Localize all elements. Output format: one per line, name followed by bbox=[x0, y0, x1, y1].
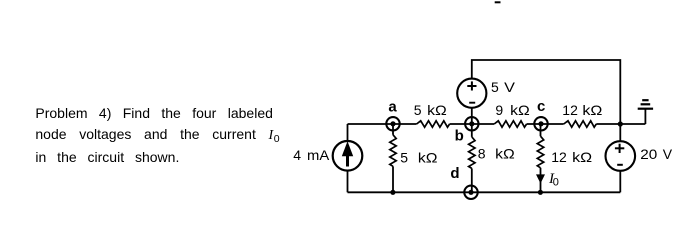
wire: main horizontal, left of 5k bbox=[348, 123, 417, 125]
value label 12 kΩ (vertical resistor) bbox=[551, 149, 592, 165]
wire: top loop from 5V source top, right and down to right rail bbox=[472, 60, 621, 124]
svg-text:kΩ: kΩ bbox=[427, 102, 447, 118]
svg-text:20: 20 bbox=[640, 146, 657, 162]
node d (open circle with junction dot, on bottom rail) bbox=[464, 186, 477, 199]
node label c bbox=[537, 98, 545, 115]
current arrow I0 (downward on 12 kΩ branch) bbox=[536, 174, 545, 183]
junction dot: right rail at main wire bbox=[618, 121, 623, 126]
value label 8 kΩ bbox=[478, 145, 515, 161]
voltage source V2 20 V bbox=[606, 141, 636, 171]
svg-text:4: 4 bbox=[293, 147, 301, 163]
current source I1 4 mA (circle with up arrow) bbox=[333, 141, 363, 171]
svg-text:c: c bbox=[537, 98, 545, 115]
wire: left branch bottom vertical bbox=[347, 170, 349, 192]
svg-text:9: 9 bbox=[495, 102, 503, 118]
junction dot: bottom rail below node c bbox=[538, 190, 543, 195]
node b (open circle with junction dot) bbox=[465, 117, 478, 130]
voltage source V1 5 V bbox=[457, 79, 486, 108]
value label 5 V bbox=[491, 79, 516, 95]
svg-text:a: a bbox=[388, 99, 397, 116]
svg-text:kΩ: kΩ bbox=[418, 149, 438, 165]
node label b bbox=[455, 127, 464, 144]
wire: main horizontal, 12k to ground stub bbox=[596, 123, 645, 125]
svg-text:0: 0 bbox=[553, 177, 559, 189]
svg-text:kΩ: kΩ bbox=[510, 102, 530, 118]
svg-text:mA: mA bbox=[307, 147, 330, 163]
wire: 20V bottom to bottom rail bbox=[619, 171, 621, 193]
svg-text:5: 5 bbox=[491, 79, 499, 95]
wire: left branch top vertical bbox=[347, 124, 349, 141]
value label 9 kΩ bbox=[495, 102, 529, 118]
resistor R4 8 kΩ (vertical, node b to node d) bbox=[469, 124, 475, 192]
svg-text:kΩ: kΩ bbox=[495, 145, 515, 161]
node label d bbox=[450, 165, 459, 182]
node label a bbox=[388, 99, 397, 116]
svg-text:kΩ: kΩ bbox=[572, 149, 592, 165]
svg-text:d: d bbox=[450, 165, 459, 182]
svg-text:8: 8 bbox=[478, 145, 486, 161]
svg-text:12: 12 bbox=[562, 102, 578, 118]
text fragment "-" (cropped line above) bbox=[495, 1, 501, 3]
resistor R3 9 kΩ (horizontal, node b to node c) bbox=[494, 121, 526, 127]
wire: right rail, junction to 20V top bbox=[619, 124, 621, 141]
resistor R1 5 kΩ (vertical, node a to bottom rail) bbox=[390, 124, 396, 192]
value label 20 V bbox=[640, 146, 672, 162]
wire: main horizontal, between 9k and 12k bbox=[527, 123, 564, 125]
resistor R5 12 kΩ (horizontal, node c to right rail) bbox=[564, 121, 597, 127]
value label 4 mA bbox=[293, 147, 330, 163]
svg-text:5: 5 bbox=[400, 149, 408, 165]
svg-text:kΩ: kΩ bbox=[582, 102, 602, 118]
wire: main horizontal, between 5k and 9k bbox=[450, 123, 495, 125]
node c (open circle with junction dot) bbox=[534, 117, 547, 130]
wire: 5V source bottom to node b bbox=[471, 108, 473, 124]
value label 12 kΩ (horizontal resistor) bbox=[562, 102, 602, 118]
ground (top right, pointing up) bbox=[638, 100, 653, 124]
value label 5 kΩ (horizontal resistor) bbox=[414, 102, 447, 118]
svg-text:V: V bbox=[663, 146, 673, 162]
wire: bottom rail bbox=[348, 191, 621, 193]
svg-text:5: 5 bbox=[414, 102, 422, 118]
svg-text:b: b bbox=[455, 127, 464, 144]
resistor R6 12 kΩ (vertical, node c to bottom rail) bbox=[537, 124, 543, 192]
value label 5 kΩ (vertical resistor) bbox=[400, 149, 437, 165]
label I0 bbox=[548, 171, 559, 189]
svg-text:12: 12 bbox=[551, 149, 567, 165]
node a (open circle with junction dot) bbox=[386, 117, 399, 130]
resistor R2 5 kΩ (horizontal, node a to node b) bbox=[417, 121, 450, 127]
svg-text:V: V bbox=[504, 79, 516, 95]
junction dot: bottom rail below node a bbox=[390, 190, 395, 195]
problem statement text bbox=[35, 103, 273, 168]
